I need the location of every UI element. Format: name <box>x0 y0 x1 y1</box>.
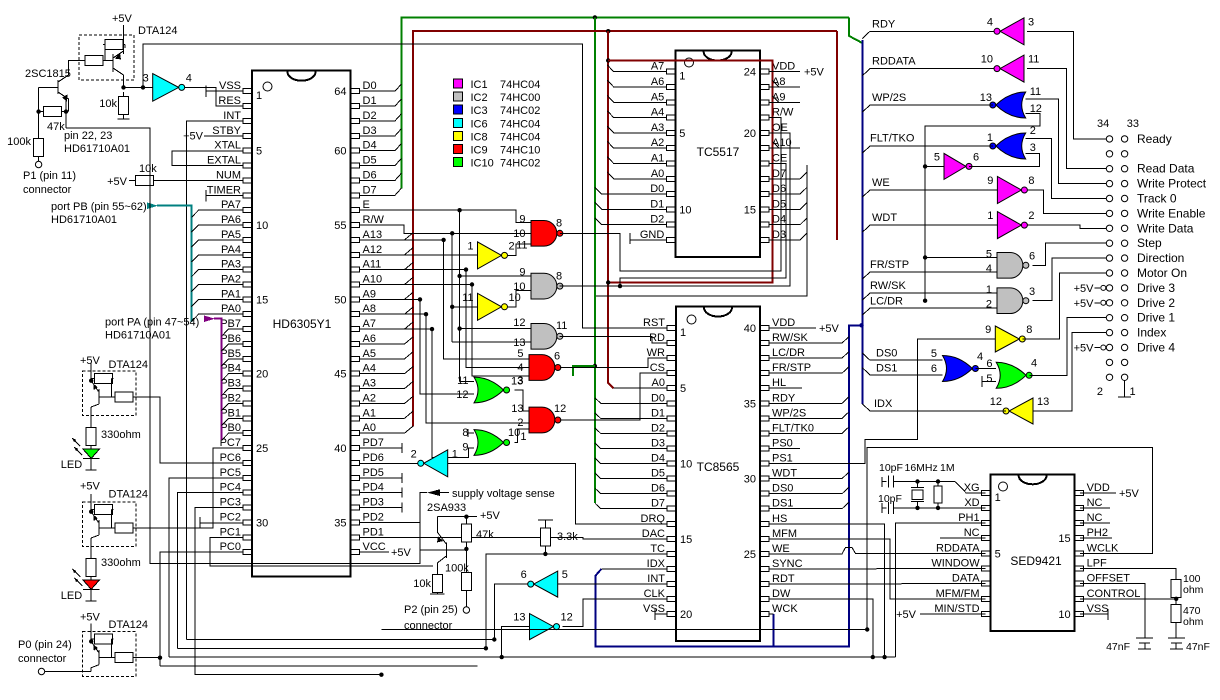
svg-text:Step: Step <box>1137 236 1162 250</box>
svg-text:DS0: DS0 <box>772 483 793 495</box>
svg-text:D1: D1 <box>363 95 377 107</box>
svg-text:RES: RES <box>218 95 241 107</box>
svg-text:10: 10 <box>1058 609 1070 621</box>
svg-text:35: 35 <box>334 517 346 529</box>
ground IC10c input 5 <box>982 381 996 383</box>
svg-text:1: 1 <box>256 90 262 102</box>
svg-text:STBY: STBY <box>212 125 241 137</box>
wire PC3 <box>195 508 381 675</box>
svg-text:47nF: 47nF <box>1186 641 1210 653</box>
wire PC0 to P0 transistor <box>160 552 244 666</box>
wire XG <box>955 482 985 493</box>
nand IC2d RW/SK LC/DR (1,2 -> 3) <box>997 288 1023 314</box>
wire WE line <box>862 190 997 197</box>
svg-text:A9: A9 <box>363 288 376 300</box>
svg-text:1: 1 <box>986 284 992 296</box>
resistor 100 ohm <box>1175 578 1177 579</box>
svg-text:MFM/FM: MFM/FM <box>936 588 980 600</box>
nand IC2c FR/STP (5,4 -> 6) <box>997 252 1023 278</box>
svg-text:DS1: DS1 <box>772 498 793 510</box>
svg-text:PD6: PD6 <box>363 452 384 464</box>
svg-text:connector: connector <box>18 653 67 665</box>
svg-text:5: 5 <box>986 249 992 261</box>
svg-text:4: 4 <box>1031 358 1037 370</box>
svg-text:Track 0: Track 0 <box>1137 192 1177 206</box>
wire HD6305 D0-D7 to green bus <box>360 84 402 91</box>
svg-text:SED9421: SED9421 <box>1010 554 1062 568</box>
svg-text:9: 9 <box>462 442 468 454</box>
capacitor 47nF right <box>1175 629 1177 638</box>
svg-text:6: 6 <box>521 569 527 581</box>
ground IC10b input 8 tick <box>467 429 469 437</box>
svg-text:XD: XD <box>964 497 979 509</box>
wire WDT inverter output to connector Write Data <box>1027 225 1106 228</box>
wire IC6d input to DRQ <box>448 462 576 464</box>
svg-text:10k: 10k <box>139 163 157 175</box>
svg-text:LED: LED <box>61 459 82 471</box>
wire HD6305 A5-A0 lines to bus <box>360 352 414 359</box>
resistor internal series <box>113 657 115 659</box>
svg-text:pin 22, 23: pin 22, 23 <box>64 130 112 142</box>
LED red <box>83 580 100 589</box>
svg-text:Drive 4: Drive 4 <box>1137 341 1175 355</box>
svg-text:PA5: PA5 <box>221 229 241 241</box>
svg-text:13: 13 <box>1037 396 1049 408</box>
wire DS0 line <box>862 353 942 360</box>
nand IC2a 74HC00 (9,10 -> 8) <box>531 273 557 299</box>
legend IC colour table <box>454 79 463 88</box>
svg-text:A1: A1 <box>363 407 376 419</box>
svg-text:PD4: PD4 <box>363 482 384 494</box>
wire IC2a output to TC5517 OE and CE <box>560 133 791 286</box>
wire LPF to filter <box>1080 569 1176 579</box>
svg-text:6: 6 <box>1029 251 1035 263</box>
svg-text:1M: 1M <box>940 462 955 474</box>
ground TC5517 GND <box>630 239 666 241</box>
svg-text:PC4: PC4 <box>220 482 241 494</box>
svg-text:A6: A6 <box>363 333 376 345</box>
svg-text:IC8: IC8 <box>471 131 488 143</box>
wire IC2b output to TC8565 RD <box>560 336 668 343</box>
inverter IC1e WDT (1 -> 2) <box>997 212 1021 239</box>
svg-text:HD61710A01: HD61710A01 <box>64 143 130 155</box>
svg-text:VDD: VDD <box>772 61 795 73</box>
wire HD6305 A7 A6 lines <box>360 322 414 329</box>
resistor internal bridge <box>93 378 94 380</box>
svg-text:+5V: +5V <box>804 67 825 79</box>
svg-text:PD3: PD3 <box>363 497 384 509</box>
wire TC8565 DRQ from IC6d input <box>576 463 667 524</box>
svg-text:ohm: ohm <box>1183 584 1204 596</box>
wire TC8565 WCK to navy <box>769 613 774 615</box>
svg-text:A3: A3 <box>363 378 376 390</box>
svg-text:24: 24 <box>744 67 756 79</box>
svg-text:LPF: LPF <box>1087 558 1107 570</box>
svg-text:A2: A2 <box>363 393 376 405</box>
wire PB7-PB0 bus entries <box>222 329 244 336</box>
wire TC8565 A0 from maroon bus <box>614 387 668 389</box>
svg-text:D2: D2 <box>363 110 377 122</box>
svg-text:RDY: RDY <box>772 392 796 404</box>
capacitor 10pF (XG) <box>881 477 883 487</box>
svg-text:GND: GND <box>640 229 665 241</box>
svg-text:DW: DW <box>772 588 791 600</box>
wire IC8c output to connector Motor On <box>1022 273 1106 339</box>
svg-text:NC: NC <box>1087 512 1103 524</box>
svg-text:PA6: PA6 <box>221 214 241 226</box>
svg-text:NC: NC <box>1087 497 1103 509</box>
wire PA7-PA0 bus entries <box>192 210 244 217</box>
svg-text:1: 1 <box>1130 386 1136 398</box>
svg-text:A7: A7 <box>363 318 376 330</box>
nor IC3a WP/2S (11,12 -> 13) <box>996 92 1026 118</box>
svg-text:R/W: R/W <box>363 214 385 226</box>
inverter IC6a (3 -> 4) <box>153 74 179 102</box>
svg-text:330ohm: 330ohm <box>101 557 141 569</box>
svg-text:A8: A8 <box>363 303 376 315</box>
svg-text:Ready: Ready <box>1137 132 1172 146</box>
svg-text:PD5: PD5 <box>363 467 384 479</box>
svg-text:+5V: +5V <box>112 13 133 25</box>
transistor DTA124 LED1 <box>82 371 135 416</box>
svg-text:HD61710A01: HD61710A01 <box>51 214 117 226</box>
svg-text:DATA: DATA <box>952 573 980 585</box>
wire bottom bus L4 <box>160 665 478 667</box>
svg-text:PS0: PS0 <box>772 438 793 450</box>
svg-text:50: 50 <box>334 294 346 306</box>
svg-text:5: 5 <box>934 151 940 163</box>
svg-text:+5V: +5V <box>896 609 917 621</box>
wire TC8565 RDT to SED DATA <box>769 583 986 585</box>
svg-text:D1: D1 <box>651 407 665 419</box>
svg-text:Drive 1: Drive 1 <box>1137 311 1175 325</box>
svg-text:30: 30 <box>744 474 756 486</box>
svg-text:supply voltage sense: supply voltage sense <box>452 488 555 500</box>
svg-text:3: 3 <box>143 72 149 84</box>
svg-text:2: 2 <box>509 240 515 252</box>
svg-text:D3: D3 <box>772 229 786 241</box>
svg-text:VSS: VSS <box>219 80 241 92</box>
svg-text:1: 1 <box>987 210 993 222</box>
net right-section bus (navy vertical near connector) <box>861 40 863 404</box>
IC TC5517 SRAM <box>675 51 760 258</box>
svg-text:WE: WE <box>772 543 790 555</box>
nor IC10c (6,5 -> 4) <box>996 362 1026 388</box>
inverter IC8c (9 -> 8) <box>995 326 1019 352</box>
wire PH1 from bottom bus <box>895 523 985 657</box>
svg-text:RDDATA: RDDATA <box>872 56 916 68</box>
svg-text:10: 10 <box>513 228 525 240</box>
svg-text:D0: D0 <box>651 392 665 404</box>
IC TC8565 floppy disk controller <box>676 307 760 642</box>
svg-text:1: 1 <box>679 71 685 83</box>
svg-text:DTA124: DTA124 <box>109 619 149 631</box>
svg-text:15: 15 <box>1058 533 1070 545</box>
wire red IC9b inputs <box>444 358 529 360</box>
svg-text:LC/DR: LC/DR <box>870 296 903 308</box>
svg-text:A7: A7 <box>651 61 664 73</box>
svg-text:D3: D3 <box>651 438 665 450</box>
svg-text:5: 5 <box>680 383 686 395</box>
wire WP gate inputs to connector Write Protect <box>1026 99 1107 183</box>
wire DTA124 LED2 output to PC7 <box>136 448 244 528</box>
svg-text:D2: D2 <box>651 422 665 434</box>
wire TC8565 INT to inverter <box>558 583 667 585</box>
svg-text:35: 35 <box>744 398 756 410</box>
wire OFFSET to cap <box>1080 584 1145 638</box>
wire IC10b output to IC9c input 1 <box>515 429 530 443</box>
wire bottom bus L2 <box>178 647 486 649</box>
svg-text:74HC02: 74HC02 <box>500 105 540 117</box>
svg-text:10: 10 <box>679 204 691 216</box>
resistor 10k <box>123 92 125 97</box>
wire RDY line <box>862 31 994 38</box>
svg-text:5: 5 <box>517 348 523 360</box>
svg-text:1: 1 <box>520 431 526 443</box>
resistor internal series <box>113 396 115 398</box>
svg-text:D7: D7 <box>363 184 377 196</box>
svg-text:8: 8 <box>556 218 562 230</box>
svg-text:VSS: VSS <box>1087 603 1109 615</box>
svg-text:+5V: +5V <box>1119 488 1140 500</box>
svg-text:13: 13 <box>980 92 992 104</box>
svg-text:DTA124: DTA124 <box>109 359 149 371</box>
wire TC8565 SYNC to SED WINDOW <box>769 568 986 571</box>
svg-text:FR/STP: FR/STP <box>870 259 909 271</box>
svg-text:PA4: PA4 <box>221 244 241 256</box>
svg-text:CS: CS <box>650 362 665 374</box>
svg-text:5: 5 <box>931 348 937 360</box>
wire RDDATA line <box>862 69 994 76</box>
wire IC6c output to TC8565 CLK <box>563 599 668 627</box>
svg-text:8: 8 <box>556 271 562 283</box>
svg-text:11: 11 <box>1030 86 1041 98</box>
svg-text:E: E <box>363 199 370 211</box>
svg-text:A11: A11 <box>363 259 382 271</box>
wire FLT gate input 2 to connector Track 0 <box>1026 139 1107 199</box>
svg-text:Write Enable: Write Enable <box>1137 206 1206 220</box>
svg-text:25: 25 <box>256 443 268 455</box>
wire DS1 line <box>862 368 942 375</box>
svg-text:OFFSET: OFFSET <box>1087 573 1131 585</box>
svg-text:PC1: PC1 <box>220 526 241 538</box>
svg-text:NUM: NUM <box>216 169 241 181</box>
wire WCLK distribution <box>867 447 1152 629</box>
svg-text:WR: WR <box>647 347 665 359</box>
svg-text:16MHz: 16MHz <box>905 462 938 474</box>
svg-text:TIMER: TIMER <box>207 184 241 196</box>
wire TC8565 DW down <box>769 599 873 657</box>
svg-text:+5V: +5V <box>80 612 101 624</box>
svg-text:74HC04: 74HC04 <box>500 131 540 143</box>
svg-text:IDX: IDX <box>874 398 893 410</box>
svg-text:25: 25 <box>744 549 756 561</box>
svg-text:VDD: VDD <box>1087 482 1110 494</box>
wire CONTROL <box>1080 598 1176 600</box>
wire IC6b output to bottom bus <box>494 584 527 639</box>
power TC5517 VDD +5V <box>769 71 800 73</box>
svg-text:3: 3 <box>1028 16 1034 28</box>
net TC8565 signal bus (navy) <box>596 325 862 646</box>
svg-text:D6: D6 <box>772 183 786 195</box>
svg-text:WCLK: WCLK <box>1087 542 1119 554</box>
wire TC5517 A8 A9 A10 to maroon bus <box>769 86 800 88</box>
wire IC8d input from connector Index <box>1033 333 1107 411</box>
svg-text:1: 1 <box>452 448 458 460</box>
svg-text:9: 9 <box>987 175 993 187</box>
svg-text:PD2: PD2 <box>363 511 384 523</box>
svg-text:1: 1 <box>680 327 686 339</box>
svg-text:+5V: +5V <box>80 480 101 492</box>
svg-text:74HC04: 74HC04 <box>500 118 540 130</box>
svg-text:D6: D6 <box>363 169 377 181</box>
resistor 47k body <box>39 111 44 113</box>
svg-text:4: 4 <box>986 263 992 275</box>
svg-text:11: 11 <box>1028 54 1039 66</box>
svg-text:10k: 10k <box>413 578 431 590</box>
svg-text:20: 20 <box>256 369 268 381</box>
svg-text:HS: HS <box>772 513 787 525</box>
wire PC7 PC6 PC5 PC4 <box>169 478 244 657</box>
wire TC8565 HL PS0 PS1 stubs <box>769 387 802 389</box>
svg-text:D6: D6 <box>651 483 665 495</box>
power SED VDD +5V <box>1080 492 1116 494</box>
svg-text:11: 11 <box>462 292 473 304</box>
svg-text:55: 55 <box>334 220 346 232</box>
svg-text:IC6: IC6 <box>471 118 488 130</box>
svg-text:9: 9 <box>985 324 991 336</box>
net data-bus D0-D7 (green) <box>401 17 849 188</box>
wire WDT line <box>862 225 997 232</box>
wire XTAL EXTAL <box>172 151 244 166</box>
svg-text:47k: 47k <box>47 121 65 133</box>
svg-text:9: 9 <box>519 214 525 226</box>
svg-text:port PA (pin 47~54): port PA (pin 47~54) <box>105 317 199 329</box>
svg-text:45: 45 <box>334 369 346 381</box>
capacitor 10pF (XD) <box>881 503 883 513</box>
svg-text:ohm: ohm <box>1183 616 1204 628</box>
resistor 330ohm LED2 <box>90 555 92 558</box>
svg-text:10: 10 <box>981 54 993 66</box>
svg-text:2: 2 <box>411 448 417 460</box>
svg-text:OE: OE <box>772 122 788 134</box>
wire base node <box>446 549 466 551</box>
connector P1 <box>35 161 41 167</box>
resistor 10k body <box>129 180 136 182</box>
svg-text:A0: A0 <box>363 422 376 434</box>
svg-text:2: 2 <box>1028 210 1034 222</box>
svg-text:RW/SK: RW/SK <box>772 332 809 344</box>
transistor DTA124 reset (dashed box) <box>79 35 134 80</box>
svg-text:+5V: +5V <box>107 176 128 188</box>
svg-text:WP/2S: WP/2S <box>772 407 806 419</box>
svg-text:15: 15 <box>680 534 692 546</box>
svg-text:Drive 2: Drive 2 <box>1137 296 1175 310</box>
inverter IC1b RDDATA (11 -> 10) <box>1000 55 1024 82</box>
svg-text:P2 (pin 25): P2 (pin 25) <box>404 604 458 616</box>
wire FLT/TKO line <box>862 146 993 153</box>
svg-text:RDT: RDT <box>772 573 795 585</box>
wire IC10a output to IC9c input 13 <box>515 390 530 411</box>
wire RDDATA inverter input to connector Read Data <box>1027 69 1107 169</box>
svg-text:47nF: 47nF <box>1106 641 1130 653</box>
inverter IC8b (11 -> 10) <box>478 293 502 320</box>
svg-text:A5: A5 <box>363 348 376 360</box>
svg-text:30: 30 <box>256 517 268 529</box>
svg-text:A3: A3 <box>651 122 664 134</box>
inverter IC6d (1 -> 2) <box>424 450 448 477</box>
svg-text:10pF: 10pF <box>879 462 903 474</box>
svg-text:5: 5 <box>562 569 568 581</box>
svg-text:D7: D7 <box>651 498 665 510</box>
svg-text:DAC: DAC <box>642 528 665 540</box>
svg-text:+5V: +5V <box>183 131 204 143</box>
nor IC10a 74HC02 (11,12 -> 13) <box>474 377 504 403</box>
resistor internal bridge <box>93 509 94 511</box>
svg-text:DRQ: DRQ <box>641 513 666 525</box>
svg-text:A4: A4 <box>651 107 664 119</box>
svg-text:A2: A2 <box>651 137 664 149</box>
wire data link vertical to TC8565 D pins <box>596 165 807 296</box>
svg-text:PC6: PC6 <box>220 452 241 464</box>
wire E line to gate inputs <box>360 210 532 222</box>
svg-text:IDX: IDX <box>647 558 666 570</box>
nand U-IC9a 74HC10 (9,10,11 -> 8) <box>531 220 557 246</box>
svg-text:8: 8 <box>1028 175 1034 187</box>
resistor 3.3k pullup <box>544 520 546 528</box>
wire reset node to inverter <box>124 86 153 88</box>
wire RW/SK line <box>862 293 997 300</box>
inverter IC6c CLK (13 -> 12) <box>530 614 554 640</box>
svg-text:11: 11 <box>556 320 567 332</box>
label supply voltage sense <box>427 489 440 496</box>
svg-text:DTA124: DTA124 <box>138 25 178 37</box>
svg-text:PC3: PC3 <box>220 497 241 509</box>
svg-text:+5V: +5V <box>1074 298 1095 310</box>
svg-text:VSS: VSS <box>643 603 665 615</box>
svg-text:10: 10 <box>680 459 692 471</box>
svg-text:13: 13 <box>511 403 523 415</box>
svg-text:DS0: DS0 <box>876 348 897 360</box>
svg-text:A0: A0 <box>651 168 664 180</box>
inverter IC8a (1 -> 2) <box>478 242 502 269</box>
svg-text:34: 34 <box>1097 118 1109 130</box>
svg-text:12: 12 <box>554 403 566 415</box>
wire TC8565 WE to SED RDDATA (crossover) <box>769 548 986 554</box>
svg-text:connector: connector <box>23 184 72 196</box>
wire green NOR IC10a input 12 <box>420 393 474 395</box>
wire TC8565 PS1 to inverter IC8 9-8 feed <box>769 339 995 464</box>
svg-text:A10: A10 <box>772 137 792 149</box>
wire TC8565 HS down <box>769 524 885 657</box>
svg-text:1: 1 <box>467 240 473 252</box>
svg-text:+5V: +5V <box>1074 283 1095 295</box>
wire TC5517 D0-D2 from green bus <box>595 187 666 194</box>
svg-text:A12: A12 <box>363 244 383 256</box>
inverter IC1d WE (9 -> 8) <box>997 177 1021 204</box>
inverter IC1c (5 -> 6) <box>944 153 966 179</box>
LED green <box>83 449 100 458</box>
svg-text:6: 6 <box>973 151 979 163</box>
power TC8565 VDD +5V <box>769 327 816 329</box>
svg-text:TC: TC <box>650 543 665 555</box>
resistor 100k <box>38 134 40 139</box>
wire IDX line <box>862 404 1006 411</box>
svg-text:A13: A13 <box>363 229 383 241</box>
svg-text:A10: A10 <box>363 274 383 286</box>
ground PC2 tick <box>199 517 201 529</box>
svg-text:PH1: PH1 <box>958 512 979 524</box>
